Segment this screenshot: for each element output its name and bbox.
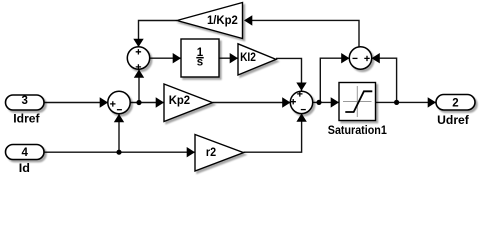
saturation icon axes [343, 101, 372, 103]
wire: sat-out junction up then left into sum4 right [373, 58, 397, 102]
arrowhead into r2 input [187, 147, 195, 157]
arrowhead into sum1 left [100, 97, 108, 107]
sum S1 (+ -) [108, 91, 130, 113]
wire: r2 out right then up into sum3 bottom [244, 114, 302, 152]
junction dot saturation output [394, 100, 399, 105]
saturation block Saturation1 [339, 83, 376, 121]
sum S4 (- +) [349, 47, 371, 69]
arrowhead into 1/Kp2 right edge (left-pointing) [244, 15, 252, 25]
wire: 1/Kp2 tip left then down to sum2 top [139, 21, 178, 47]
svg-text:Idref: Idref [13, 113, 39, 125]
svg-text:2: 2 [452, 97, 458, 109]
integrator block 1/s [181, 39, 219, 77]
arrowhead into Kp2 input [156, 97, 164, 107]
arrowhead into saturation input [331, 97, 339, 107]
arrowhead into port2 [428, 97, 436, 107]
svg-text:3: 3 [22, 95, 28, 107]
svg-text:4: 4 [22, 147, 29, 159]
wire: riser sum1-junction up to sum2 bottom [138, 70, 140, 103]
wire: sum3-out junction up then right into sum4 left [320, 58, 348, 102]
wire: Kp2 out to sum3 left [213, 102, 291, 104]
arrowhead into KI2 input [230, 53, 238, 63]
junction dot sum3 output [316, 100, 321, 105]
arrowhead into sum4 right (left-pointing) [372, 53, 380, 63]
wire: sum1 out to Kp2 with branch up [130, 102, 164, 104]
junction dot port4 row [116, 150, 121, 155]
svg-text:Udref: Udref [437, 115, 469, 127]
svg-text:s: s [197, 57, 203, 69]
svg-text:Saturation1: Saturation1 [328, 125, 388, 137]
arrowhead into sum2 bottom (up) [134, 70, 144, 78]
gain KI2 [238, 44, 276, 75]
svg-text:Kp2: Kp2 [169, 95, 190, 107]
arrowhead into sum1 bottom (up) [114, 114, 124, 122]
svg-text:KI2: KI2 [240, 52, 256, 64]
wire: saturation out to port2 [376, 101, 436, 103]
junction dot sum1 output [136, 100, 141, 105]
arrowhead into sum3 top (down) [296, 83, 306, 91]
wire: sum2 out to integrator [150, 57, 181, 59]
wire: sum4 output up and left along top to 1/Kp2 input [245, 20, 359, 47]
svg-text:1/Kp2: 1/Kp2 [207, 15, 238, 27]
sum S3 (+ + -) [290, 91, 312, 113]
outport 2 [436, 95, 475, 111]
arrowhead into sum3 bottom (up) [296, 113, 306, 121]
svg-text:r2: r2 [206, 147, 216, 159]
wire: sum3 out to saturation [313, 101, 339, 103]
arrowhead into sum4 left [341, 53, 349, 63]
arrowhead into sum2 top (down) [133, 39, 143, 47]
saturation icon curve [345, 91, 372, 112]
inport 3 [6, 95, 45, 110]
arrowhead into sum3 left [282, 97, 290, 107]
wire: port3 to sum1 [44, 102, 108, 104]
wire: KI2 out right then down into sum3 top [276, 58, 302, 91]
wire: integrator out to KI2 [219, 57, 238, 59]
wire: riser port4-junction up to sum1 bottom [118, 114, 120, 152]
sum S2 (+ +) [127, 47, 149, 69]
gain Kp2 [164, 84, 213, 122]
arrowhead into integrator input [173, 53, 181, 63]
wire: port4 row to r2 [44, 151, 195, 153]
gain r2 [195, 135, 244, 172]
svg-text:Id: Id [19, 163, 30, 175]
inport 4 [6, 145, 45, 160]
gain 1/Kp2 (mirrored, points left) [177, 3, 243, 39]
